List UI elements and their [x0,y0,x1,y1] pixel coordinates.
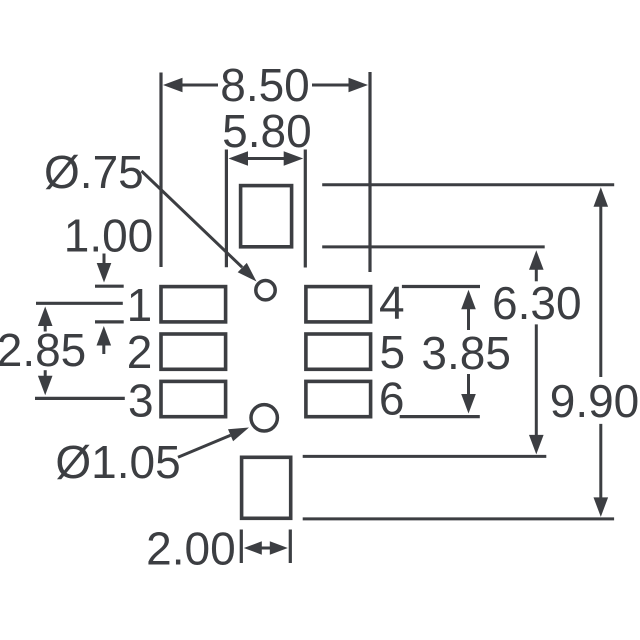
dim 9.90 down arrow [599,424,602,499]
svg-text:Ø1.05: Ø1.05 [55,436,180,488]
dim 6.30 up arrow [529,250,544,269]
dim 1.00 bottom tick [95,320,124,323]
bottom square pad P8 [242,457,291,518]
dim 3.85 up arrow [461,290,476,310]
svg-text:1: 1 [127,279,153,331]
dim 3.85 down arrow [467,374,470,397]
dim 9.90 up arrow [594,187,609,207]
leader line to hole 0.75 [142,171,243,267]
dim 6.30 top line [322,245,545,248]
dim 3.85 top line [402,285,480,288]
dim 2.00 left extension line [240,530,243,564]
dim 9.90 bottom line [303,517,614,520]
dim 8.50 left arrow [180,84,218,87]
dim 3.85 bottom line [400,415,480,418]
pad 2 [161,334,226,369]
pad 4 [306,287,371,322]
svg-text:1.00: 1.00 [64,210,154,262]
dim 2.85 top line to pin 1 [36,302,123,305]
dim 5.80 left extension line [225,150,228,268]
dim 8.50 left extension line [159,73,162,268]
dim 2.85 up arrow [38,307,53,327]
svg-text:3.85: 3.85 [421,327,511,379]
svg-text:2: 2 [127,326,153,378]
svg-text:9.90: 9.90 [550,375,640,427]
dim 8.50 right arrow [312,84,350,87]
dim 5.80 right extension line [304,150,307,268]
top square pad P7 [241,186,292,247]
dim 1.00 top tick [95,285,124,288]
dim 2.85 down arrow [44,370,47,377]
pad 1 [161,287,226,322]
hole circle 1.05 [251,405,277,431]
dim 9.90 top line [322,183,614,186]
svg-text:4: 4 [379,277,405,329]
pad 3 [161,381,226,416]
dim 1.00 up arrow [97,326,112,346]
dim 2.00 arrows [260,547,272,550]
pad 6 [306,381,371,416]
svg-text:Ø.75: Ø.75 [44,146,144,198]
svg-text:2.00: 2.00 [146,523,236,575]
dim 2.85 bottom line to pin 3 [35,397,125,400]
pad 5 [306,334,371,369]
svg-text:5: 5 [380,326,406,378]
dim 6.30 down arrow [535,324,538,437]
svg-text:2.85: 2.85 [0,324,86,376]
svg-text:6.30: 6.30 [492,277,582,329]
dim 6.30 bottom line [303,455,547,458]
dim 5.80 arrow line [240,157,292,160]
svg-text:3: 3 [128,374,154,426]
hole circle 0.75 [256,281,275,300]
dim 8.50 right extension line [368,72,371,272]
dim 2.00 right extension line [289,530,292,564]
leader line to hole 1.05 [178,435,231,457]
svg-text:5.80: 5.80 [222,105,312,157]
dim 1.00 down arrow [103,254,106,267]
svg-text:8.50: 8.50 [220,59,310,111]
